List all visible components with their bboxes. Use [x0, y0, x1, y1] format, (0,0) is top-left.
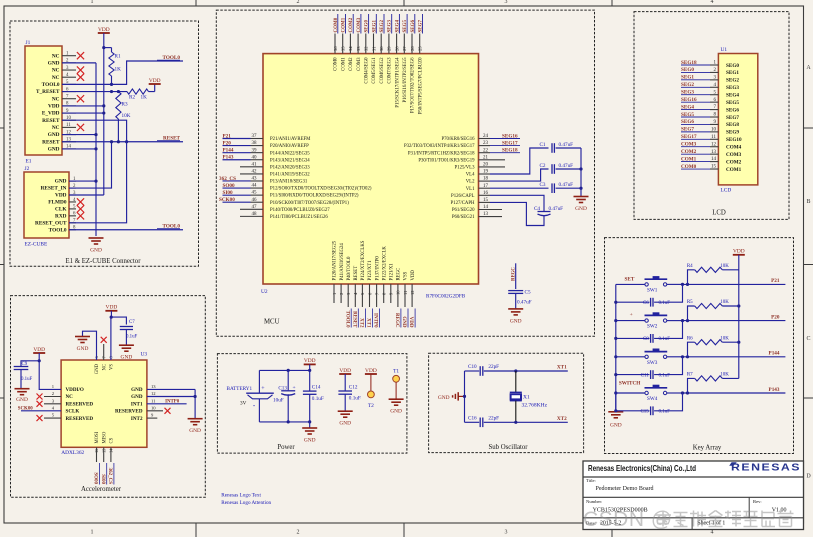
crystal X1 32.768KHz — [515, 371, 517, 392]
resistor R6 10K — [688, 342, 695, 357]
power VDD symbol top — [98, 32, 110, 34]
net label SEG18 — [479, 152, 491, 154]
svg-text:XT2: XT2 — [557, 416, 567, 422]
svg-text:SET: SET — [625, 277, 635, 283]
switch SW3 — [645, 355, 648, 358]
svg-text:VS: VS — [110, 364, 115, 370]
svg-text:COM2: COM2 — [349, 57, 354, 71]
svg-text:3: 3 — [505, 0, 508, 5]
svg-text:X1: X1 — [523, 395, 530, 401]
svg-text:SCK00: SCK00 — [219, 197, 235, 203]
svg-text:SW4: SW4 — [647, 396, 658, 402]
ground symbol REGC — [508, 308, 523, 310]
svg-text:SEG0: SEG0 — [365, 19, 370, 32]
svg-text:Renesas Logo Attention: Renesas Logo Attention — [221, 500, 271, 506]
svg-text:RESET_IN: RESET_IN — [41, 186, 67, 192]
svg-text:INT2: INT2 — [131, 416, 143, 422]
resistor R3 10K — [116, 92, 121, 119]
capacitor C10 22pF — [465, 370, 480, 372]
svg-text:10: 10 — [396, 290, 401, 295]
svg-text:SEG4: SEG4 — [681, 104, 694, 110]
svg-text:VDD: VDD — [365, 368, 377, 374]
wire SCLK net SCK00 — [21, 410, 61, 412]
svg-text:SO00: SO00 — [93, 472, 98, 484]
svg-text:SEG0: SEG0 — [681, 67, 694, 73]
svg-text:VDD: VDD — [733, 249, 745, 255]
svg-text:32.768KHz: 32.768KHz — [522, 402, 548, 408]
wire SW3 terminals — [616, 356, 645, 358]
svg-text:COM3: COM3 — [681, 142, 697, 148]
svg-text:R4: R4 — [687, 264, 693, 269]
accelerometer U3 ADXL362 — [61, 360, 147, 447]
svg-text:COM3: COM3 — [726, 152, 742, 158]
wire key array VDD rail — [738, 255, 740, 379]
wire cap common rail — [580, 148, 582, 188]
svg-text:C3: C3 — [539, 182, 545, 188]
svg-text:10uF: 10uF — [273, 398, 284, 404]
power VDD symbol C12 — [339, 373, 351, 375]
block border: MCU — [216, 10, 594, 336]
svg-text:GND: GND — [510, 319, 522, 325]
svg-text:GND: GND — [121, 355, 133, 361]
svg-text:COM2: COM2 — [681, 149, 697, 155]
capacitor C5 0.47uF — [508, 290, 523, 292]
svg-text:32: 32 — [364, 46, 369, 51]
svg-text:P15/SCK17/INTP1/SEG4: P15/SCK17/INTP1/SEG4 — [395, 57, 400, 108]
svg-text:SEG7: SEG7 — [419, 19, 424, 32]
svg-text:10K: 10K — [720, 336, 729, 341]
svg-text:E1: E1 — [26, 159, 32, 165]
capacitor C4 0.47uF — [538, 211, 551, 213]
svg-text:VDD: VDD — [48, 103, 60, 109]
wire power bottom rail — [259, 421, 309, 423]
svg-text:SEG17: SEG17 — [502, 140, 518, 146]
svg-text:R2: R2 — [129, 95, 135, 101]
ground symbol accel top — [75, 336, 90, 338]
svg-text:MOSI: MOSI — [95, 431, 100, 443]
svg-text:CS: CS — [110, 437, 115, 443]
svg-text:P11/SI00/RXD0/TOOLRXD/SEG29/(I: P11/SI00/RXD0/TOOLRXD/SEG29/(INTP2) — [270, 194, 359, 199]
capacitor C6 0.1uF — [616, 301, 650, 303]
svg-text:LCD: LCD — [721, 188, 732, 194]
svg-text:E_VDD: E_VDD — [42, 111, 60, 117]
capacitor C13 10uF — [287, 370, 289, 390]
pin stubs J1 — [62, 62, 76, 64]
svg-text:GND: GND — [438, 395, 450, 401]
wire TOOL0 net — [62, 83, 112, 85]
svg-text:10K: 10K — [720, 264, 729, 269]
svg-text:P124/XT2/EXCLKS: P124/XT2/EXCLKS — [361, 240, 366, 280]
power VDD symbol accel VS — [105, 310, 117, 312]
svg-text:1K: 1K — [115, 67, 122, 73]
svg-text:GND: GND — [77, 346, 89, 352]
svg-text:Accelerometer: Accelerometer — [81, 486, 122, 493]
svg-text:28: 28 — [394, 46, 399, 51]
svg-text:Number:: Number: — [586, 499, 602, 504]
svg-text:C2: C2 — [539, 163, 545, 169]
svg-text:TOOL0: TOOL0 — [49, 227, 67, 233]
svg-text:SEG7: SEG7 — [681, 127, 694, 133]
svg-text:12: 12 — [711, 142, 717, 147]
svg-text:3: 3 — [505, 530, 508, 536]
ground symbol below C7 — [119, 344, 134, 346]
sheet zone ticks — [0, 127, 4, 129]
svg-text:P141/ANI19/SEG32: P141/ANI19/SEG32 — [270, 173, 310, 178]
switch SW4 — [645, 391, 648, 394]
no-connect X accel NC top — [103, 344, 105, 360]
svg-text:C15: C15 — [640, 410, 649, 415]
capacitor C12 0.1uF — [344, 374, 346, 391]
svg-text:GND: GND — [48, 147, 60, 153]
svg-text:33: 33 — [356, 46, 361, 51]
pin stubs J2 — [69, 180, 76, 182]
svg-text:P144: P144 — [769, 351, 780, 357]
svg-text:COM4/SEG0: COM4/SEG0 — [365, 57, 370, 84]
svg-text:VDD: VDD — [304, 358, 316, 364]
power VDD symbol at R2 — [149, 91, 155, 93]
ground symbol below C9 — [15, 388, 30, 390]
MCU U2 R7F0C002G2DFB — [263, 54, 479, 284]
connector J1 — [25, 46, 62, 155]
svg-text:0.1uF: 0.1uF — [312, 396, 324, 402]
wire RESET to J2 RESET_OUT — [69, 142, 127, 223]
svg-text:Pedometer Demo Board: Pedometer Demo Board — [596, 486, 654, 492]
svg-text:INT1: INT1 — [131, 402, 143, 408]
svg-text:10K: 10K — [720, 373, 729, 378]
svg-text:SI00: SI00 — [223, 190, 233, 196]
title block frame — [583, 461, 804, 530]
svg-text:BATTERY1: BATTERY1 — [227, 386, 253, 392]
svg-text:COM6/SEG2: COM6/SEG2 — [380, 57, 385, 84]
svg-text:0.47uF: 0.47uF — [549, 206, 564, 212]
svg-text:SW3: SW3 — [647, 360, 658, 366]
wire J2 TOOL0 — [69, 229, 183, 231]
svg-text:VDD: VDD — [149, 78, 161, 84]
block border: Accelerometer — [11, 296, 206, 498]
wire XT2 net — [516, 421, 568, 423]
svg-text:SEG9: SEG9 — [726, 130, 739, 136]
svg-text:VL4: VL4 — [466, 173, 475, 178]
svg-text:14: 14 — [711, 157, 717, 162]
svg-text:P122/X2/EXCLK: P122/X2/EXCLK — [382, 246, 387, 281]
svg-text:E1 & EZ-CUBE Connector: E1 & EZ-CUBE Connector — [66, 258, 142, 265]
MCU top pins with rotated net labels — [334, 34, 336, 54]
svg-text:COM5/SEG1: COM5/SEG1 — [372, 57, 377, 84]
resistor R2 1K — [127, 89, 149, 94]
svg-text:COM0: COM0 — [334, 17, 339, 32]
svg-text:FLMD0: FLMD0 — [48, 200, 67, 206]
svg-text:10K: 10K — [122, 113, 131, 119]
wire C9 to ground — [20, 370, 22, 389]
svg-text:GND: GND — [304, 438, 316, 444]
wire VDD to capacitor C7 — [111, 317, 126, 324]
svg-text:P143/ANI21/SEG34: P143/ANI21/SEG34 — [270, 158, 310, 163]
svg-text:ADXL362: ADXL362 — [61, 450, 84, 456]
resistor R1 1K — [104, 47, 112, 49]
svg-text:C12: C12 — [349, 385, 358, 391]
svg-text:4: 4 — [711, 0, 714, 5]
svg-text:SEG18: SEG18 — [681, 60, 697, 66]
capacitor C15 0.1uF — [616, 410, 650, 412]
svg-text:COM3: COM3 — [357, 17, 362, 32]
capacitor C11 0.1uF — [616, 374, 650, 376]
svg-text:P32/TI03/TO03/INTP4/KR1/SEG17: P32/TI03/TO03/INTP4/KR1/SEG17 — [404, 144, 475, 149]
test point T2 — [370, 374, 372, 391]
svg-text:2: 2 — [297, 0, 300, 5]
ground symbol key array — [615, 411, 617, 412]
svg-text:13: 13 — [151, 384, 156, 389]
svg-text:SW1: SW1 — [647, 287, 658, 293]
battery BATTERY1 3V — [258, 370, 260, 393]
svg-text:INTP0: INTP0 — [373, 313, 378, 328]
svg-text:P144: P144 — [223, 147, 234, 153]
svg-text:SEG3: SEG3 — [681, 90, 694, 96]
svg-text:RXD: RXD — [55, 213, 67, 219]
ground symbol power — [309, 422, 311, 428]
svg-text:Renesas Logo Text: Renesas Logo Text — [221, 493, 261, 499]
svg-text:T2: T2 — [368, 403, 374, 409]
svg-text:SEG4: SEG4 — [395, 19, 400, 32]
svg-text:VDD: VDD — [411, 270, 416, 281]
wire J1 pin10 RESET to net — [62, 120, 127, 142]
svg-text:COM3: COM3 — [357, 57, 362, 71]
stub pin20 — [479, 166, 506, 168]
svg-text:COM1: COM1 — [726, 167, 742, 173]
switch SW1 — [645, 283, 648, 286]
svg-text:SEG7: SEG7 — [726, 115, 739, 121]
REGC net wire — [515, 263, 517, 289]
svg-text:RESERVED: RESERVED — [66, 416, 94, 422]
svg-text:P120/ANI17/SEG25: P120/ANI17/SEG25 — [333, 240, 338, 280]
svg-text:SEG6: SEG6 — [411, 19, 416, 32]
svg-text:22pF: 22pF — [488, 364, 499, 370]
svg-text:P40/TOOL0: P40/TOOL0 — [347, 256, 352, 280]
net label SEG17 — [479, 145, 491, 147]
wire CAPL to C4 — [479, 194, 491, 196]
svg-text:GND: GND — [131, 394, 143, 400]
svg-text:Key Array: Key Array — [693, 445, 722, 452]
svg-text:VL2: VL2 — [466, 180, 475, 185]
stub pin14 — [479, 209, 503, 211]
svg-text:362_CS: 362_CS — [107, 468, 112, 485]
svg-text:GND: GND — [55, 179, 67, 185]
svg-text:P31/INTP5/RTC1HZ/KR2/SEG18: P31/INTP5/RTC1HZ/KR2/SEG18 — [408, 151, 475, 156]
svg-text:SEG6: SEG6 — [681, 119, 694, 125]
svg-text:COM0: COM0 — [334, 57, 339, 71]
svg-text:Title:: Title: — [586, 478, 596, 483]
svg-text:INTP0: INTP0 — [165, 399, 180, 404]
svg-text:TOOL0: TOOL0 — [344, 311, 349, 328]
block border: E1 & EZ-CUBE Connector — [10, 21, 199, 266]
wire rail to C15 row — [615, 393, 617, 411]
LCD pin rows with net labels — [710, 64, 718, 66]
svg-text:P70/KR0/SEG16: P70/KR0/SEG16 — [441, 137, 475, 142]
capacitor C1 0.47uF — [551, 143, 553, 153]
svg-text:D: D — [806, 474, 811, 480]
svg-text:GND: GND — [131, 387, 143, 393]
svg-text:SEG18: SEG18 — [502, 148, 518, 154]
svg-text:C14: C14 — [312, 385, 321, 391]
svg-text:A: A — [806, 65, 811, 71]
svg-text:C10: C10 — [468, 364, 477, 370]
capacitor C3 0.47uF — [551, 183, 553, 193]
svg-text:SEG8: SEG8 — [726, 122, 739, 128]
svg-text:RESET: RESET — [351, 311, 356, 328]
svg-text:RENESAS: RENESAS — [731, 463, 801, 474]
svg-text:C4: C4 — [534, 206, 540, 212]
svg-text:COM2: COM2 — [726, 159, 742, 165]
power VDD symbol key array — [733, 254, 745, 256]
svg-text:MCU: MCU — [264, 319, 280, 326]
svg-text:P144/ANI22/SEG35: P144/ANI22/SEG35 — [270, 151, 310, 156]
svg-text:SCK00: SCK00 — [18, 406, 34, 411]
svg-text:RESET: RESET — [42, 118, 60, 124]
wire GND rail — [95, 63, 97, 236]
svg-text:11: 11 — [403, 290, 408, 295]
svg-text:0.47uF: 0.47uF — [559, 163, 574, 169]
LCD connector U1 — [718, 54, 757, 185]
wire VDD to VDDI/O pin1 — [39, 353, 61, 389]
svg-text:SEG5: SEG5 — [726, 100, 739, 106]
capacitor C8 0.1uF — [616, 337, 650, 339]
svg-text:10K: 10K — [720, 300, 729, 305]
watermark CSDN text — [583, 508, 794, 531]
wire accel GND pins 13,12 — [147, 388, 195, 390]
svg-text:COM7/SEG3: COM7/SEG3 — [388, 57, 393, 84]
svg-text:SEG16: SEG16 — [502, 133, 518, 139]
wire C4 to CAPH — [490, 202, 544, 225]
svg-text:NC: NC — [52, 68, 60, 74]
svg-text:VDD: VDD — [55, 193, 67, 199]
svg-text:VDD: VDD — [339, 368, 351, 374]
svg-text:RESERVED: RESERVED — [115, 409, 143, 415]
svg-text:TOOL0: TOOL0 — [42, 82, 60, 88]
svg-text:SEG3: SEG3 — [388, 19, 393, 32]
svg-text:R6: R6 — [687, 336, 693, 341]
svg-text:SEG1: SEG1 — [681, 75, 694, 81]
svg-text:P10/SCK00/TI07/TO07/SEG28/(INT: P10/SCK00/TI07/TO07/SEG28/(INTP1) — [270, 201, 349, 206]
svg-text:2: 2 — [297, 530, 300, 536]
svg-text:U3: U3 — [141, 352, 148, 358]
svg-text:R5: R5 — [687, 300, 693, 305]
block border: LCD — [634, 12, 789, 220]
svg-text:XT1: XT1 — [366, 318, 371, 328]
svg-text:GND: GND — [90, 248, 102, 254]
no-connect X accel pin10 — [147, 410, 163, 412]
power VDD symbol accel left — [33, 352, 45, 354]
capacitor C7 0.1uF — [120, 326, 133, 328]
svg-text:SW2: SW2 — [647, 324, 658, 330]
svg-text:P61/SEG20: P61/SEG20 — [452, 208, 475, 213]
svg-text:GND: GND — [189, 428, 201, 434]
svg-text:EZ-CUBE: EZ-CUBE — [25, 242, 48, 248]
svg-text:362_CS: 362_CS — [219, 176, 236, 182]
svg-text:35: 35 — [341, 46, 346, 51]
svg-text:Rev:: Rev: — [753, 499, 762, 504]
svg-text:C5: C5 — [525, 290, 531, 296]
svg-text:CLK: CLK — [55, 207, 67, 213]
wire RESET net — [62, 141, 183, 143]
wire RESET to J2 RESET_IN — [69, 142, 112, 188]
svg-text:REGC: REGC — [397, 268, 402, 281]
svg-text:GND: GND — [95, 363, 100, 374]
svg-text:0.47uF: 0.47uF — [559, 182, 574, 188]
no-connect X accel pin3 — [44, 403, 61, 405]
svg-text:13: 13 — [711, 150, 717, 155]
wire VDD to VS pin — [110, 311, 112, 317]
svg-text:GND: GND — [575, 206, 587, 212]
svg-text:P143: P143 — [769, 387, 780, 393]
svg-text:B: B — [806, 199, 810, 205]
svg-text:P17/SO17/TI02/TO02/SEG6: P17/SO17/TI02/TO02/SEG6 — [411, 57, 416, 113]
svg-text:XT2: XT2 — [359, 318, 364, 328]
svg-text:P60/SEG21: P60/SEG21 — [452, 215, 475, 220]
svg-text:VDD: VDD — [106, 305, 118, 311]
wire T_RESET to R2 — [62, 91, 127, 93]
svg-text:VDD: VDD — [408, 317, 413, 328]
svg-text:P21: P21 — [223, 133, 232, 139]
block border: Sub Oscillator — [429, 353, 584, 452]
svg-text:P127/CAPH: P127/CAPH — [451, 201, 476, 206]
svg-text:C1: C1 — [539, 142, 545, 148]
svg-text:25: 25 — [418, 46, 423, 51]
svg-text:VSS: VSS — [404, 271, 409, 280]
ground symbol accel right — [188, 418, 203, 420]
svg-text:C11: C11 — [641, 373, 650, 378]
svg-text:31: 31 — [371, 46, 376, 51]
no-connect X accel pin2 — [44, 396, 61, 398]
svg-text:J1: J1 — [26, 40, 31, 46]
svg-text:P50/INTP5/SEG7/PCLBUZ0: P50/INTP5/SEG7/PCLBUZ0 — [418, 57, 423, 114]
wire key array left rail — [615, 284, 617, 410]
svg-text:P140/TO00/PCLBUZ0/SEG27: P140/TO00/PCLBUZ0/SEG27 — [270, 208, 330, 213]
svg-text:Renesas Electronics(China) Co.: Renesas Electronics(China) Co.,Ltd — [588, 463, 696, 473]
switch SW2 — [645, 319, 648, 322]
ground symbol for C1-C3 — [580, 188, 582, 196]
svg-text:COM1: COM1 — [681, 156, 697, 162]
svg-text:C13: C13 — [278, 386, 287, 392]
svg-text:SEG5: SEG5 — [681, 112, 694, 118]
svg-text:Sub Oscillator: Sub Oscillator — [488, 444, 528, 451]
svg-text:P121/X1: P121/X1 — [390, 263, 395, 281]
svg-text:U1: U1 — [721, 47, 728, 53]
ground symbol GND — [89, 237, 104, 239]
svg-text:SEG2: SEG2 — [726, 78, 739, 84]
svg-text:SEG10: SEG10 — [726, 137, 742, 143]
svg-text:36: 36 — [333, 46, 338, 51]
no-connect X marks on J2 pins 4,5,6 — [69, 201, 76, 203]
wire SW4 terminals — [616, 392, 645, 394]
wire INT1 net INTP0 — [147, 403, 187, 405]
svg-text:P30/TI01/TO01/KR3/SEG19: P30/TI01/TO01/KR3/SEG19 — [418, 158, 475, 163]
svg-text:0.1uF: 0.1uF — [349, 396, 361, 402]
svg-text:P13/ANI18/SEG31: P13/ANI18/SEG31 — [270, 180, 308, 185]
svg-text:GND: GND — [390, 409, 402, 415]
svg-text:SEG2: SEG2 — [681, 82, 694, 88]
svg-text:R7F0C002G2DFB: R7F0C002G2DFB — [426, 294, 466, 300]
svg-text:11: 11 — [151, 398, 156, 403]
wire VL2 to C2 — [479, 180, 491, 182]
capacitor C14 0.1uF — [309, 370, 311, 391]
svg-text:NC: NC — [52, 75, 60, 81]
svg-text:GND: GND — [48, 132, 60, 138]
wire sub osc left rail — [464, 371, 466, 422]
svg-text:SEG5: SEG5 — [403, 19, 408, 32]
power VDD symbol T2 — [365, 373, 377, 375]
block border: Power — [217, 354, 407, 454]
svg-text:C16: C16 — [468, 415, 477, 421]
svg-text:SWITCH: SWITCH — [619, 381, 640, 387]
